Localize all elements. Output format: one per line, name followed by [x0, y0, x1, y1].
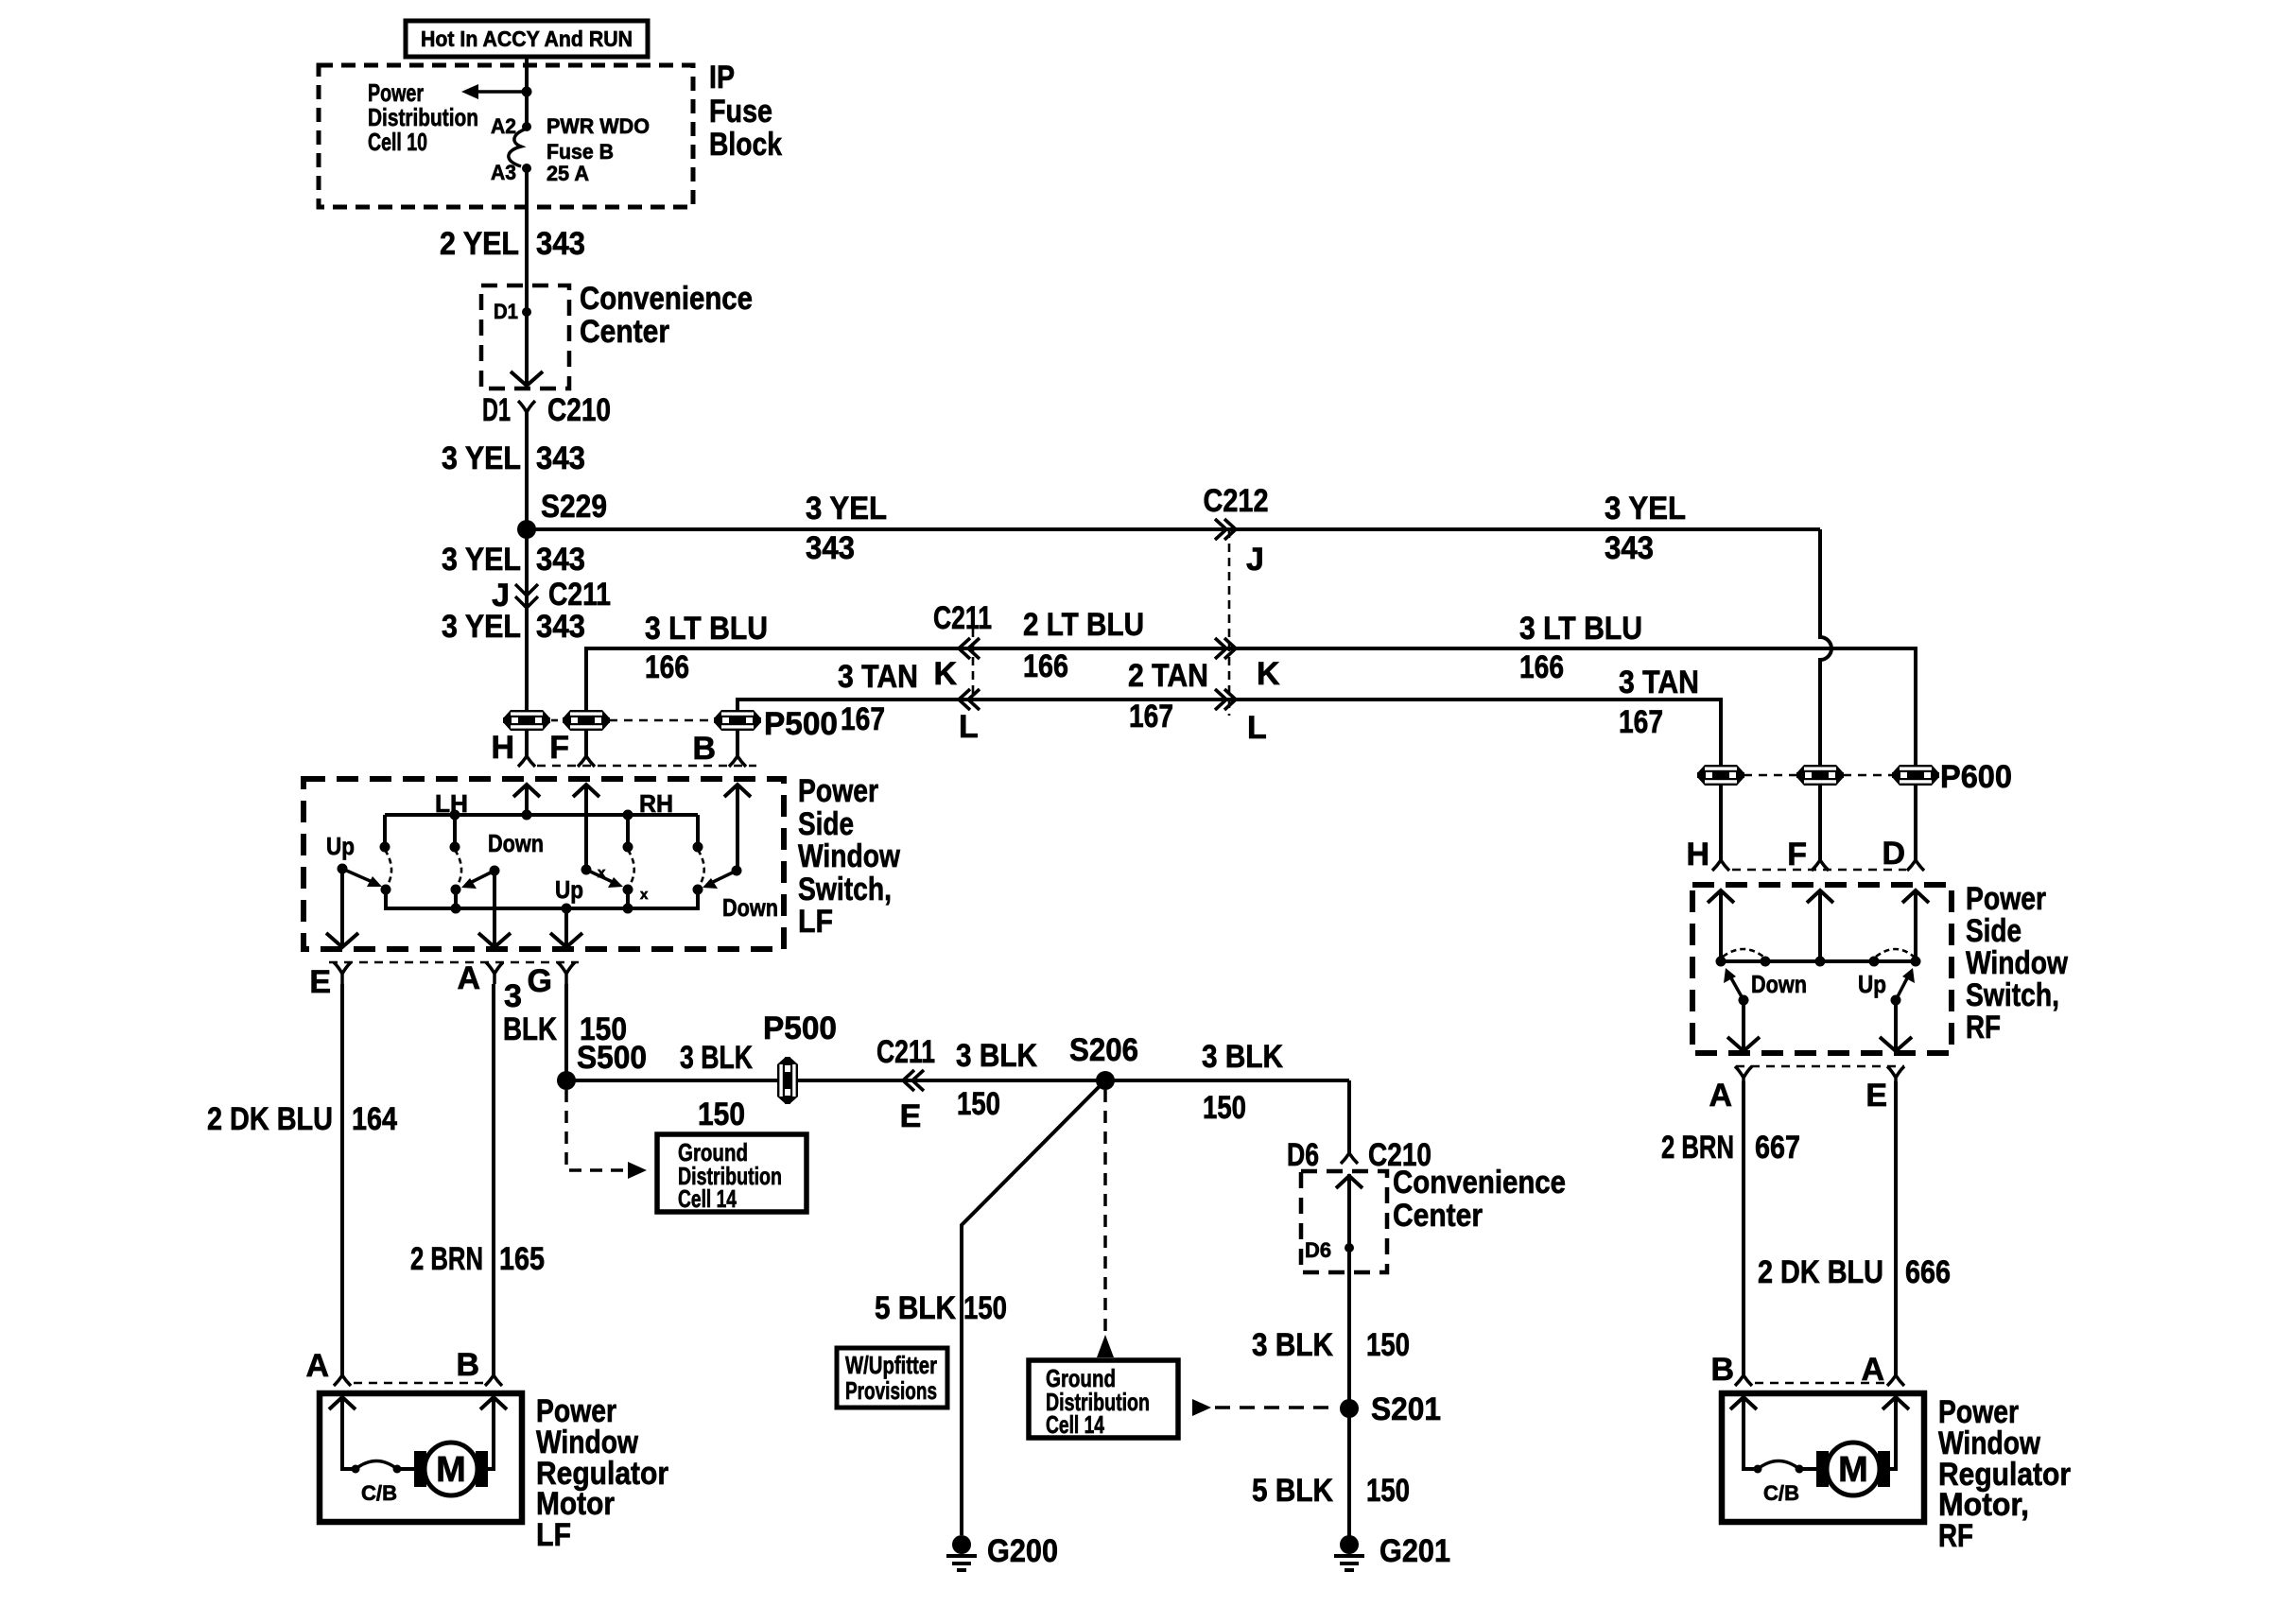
svg-text:Fuse: Fuse: [709, 94, 772, 130]
wire G output: [564, 908, 568, 947]
wire: feed into fuse block: [525, 57, 529, 127]
connector pins E A G below LF switch: [309, 960, 579, 1000]
svg-text:A: A: [1861, 1352, 1884, 1388]
label Convenience Center: [580, 281, 753, 350]
svg-text:167: 167: [841, 701, 885, 737]
svg-text:343: 343: [536, 441, 585, 476]
svg-text:A: A: [1709, 1078, 1732, 1114]
svg-text:C/B: C/B: [1763, 1481, 1799, 1505]
svg-text:E: E: [1865, 1078, 1887, 1114]
svg-text:3 LT BLU: 3 LT BLU: [1519, 611, 1642, 647]
label Power Side Window Switch, RF: [1966, 881, 2068, 1045]
svg-text:150: 150: [1366, 1473, 1410, 1509]
wiper B pole: [732, 866, 742, 876]
svg-text:Convenience: Convenience: [1393, 1165, 1566, 1201]
connector C211 E on BLK wire: [903, 1070, 924, 1091]
svg-text:Side: Side: [798, 806, 854, 842]
svg-text:C210: C210: [547, 392, 611, 428]
svg-text:150: 150: [1203, 1090, 1246, 1126]
svg-text:K: K: [933, 656, 957, 692]
junction dots on lower bus: [451, 904, 461, 914]
connector pins H F B of LF switch: [491, 730, 756, 767]
ground G201: [1334, 1535, 1364, 1570]
label 2 TAN 167: [1128, 658, 1208, 734]
label Power Side Window Switch, LF: [798, 773, 900, 940]
svg-text:E: E: [309, 964, 331, 1000]
svg-text:Switch,: Switch,: [1966, 977, 2059, 1013]
svg-text:Switch,: Switch,: [798, 872, 892, 907]
label 3 BLK 150 (C211-S206): [956, 1038, 1037, 1122]
svg-text:C211: C211: [933, 600, 992, 636]
svg-text:Down: Down: [722, 893, 778, 922]
svg-text:Center: Center: [1393, 1198, 1483, 1234]
Convenience Center dashed box (D1): [481, 285, 569, 389]
svg-text:Side: Side: [1966, 913, 2021, 949]
label 2 BRN 667: [1661, 1130, 1800, 1166]
wire F into switch: [573, 785, 599, 797]
wire D into RF switch: [1902, 890, 1929, 903]
grommet P500 F: [563, 710, 610, 731]
svg-text:3 YEL: 3 YEL: [1605, 491, 1686, 527]
wire E to motor: [340, 984, 344, 1375]
RF contact bus: [1721, 959, 1916, 963]
svg-text:Power: Power: [1966, 881, 2046, 917]
label 3 BLK 150 (D6-S201): [1252, 1327, 1410, 1363]
label 3 YEL 343 (right segment): [1605, 491, 1686, 566]
grommet P600 F: [1796, 765, 1844, 786]
svg-text:666: 666: [1905, 1254, 1951, 1290]
wire B into switch: [724, 785, 751, 797]
wire A to motor: [492, 984, 495, 1375]
connector C211 chevrons on LT BLU wire: [959, 638, 980, 659]
node: branch to Power Distribution: [522, 87, 532, 97]
svg-text:2 DK BLU: 2 DK BLU: [207, 1101, 333, 1137]
svg-text:166: 166: [1023, 648, 1068, 684]
svg-text:B: B: [1710, 1352, 1734, 1388]
svg-text:2 DK BLU: 2 DK BLU: [1758, 1254, 1883, 1290]
label 3 TAN 167 (left): [838, 659, 918, 737]
Convenience Center dashed box (D6): [1301, 1171, 1387, 1272]
label 3 LT BLU 166 (right): [1519, 611, 1642, 685]
dashed ref to S201: [1192, 1399, 1211, 1416]
svg-text:M: M: [436, 1450, 466, 1490]
svg-text:P600: P600: [1940, 759, 2012, 795]
svg-text:2 BRN: 2 BRN: [1661, 1130, 1734, 1166]
svg-text:165: 165: [499, 1241, 545, 1277]
svg-text:3 YEL: 3 YEL: [442, 609, 521, 645]
label Power Distribution Cell 10: [368, 78, 478, 156]
wiper RH x: [581, 865, 592, 875]
svg-text:167: 167: [1129, 699, 1173, 734]
dashed throw arcs RF: [1723, 949, 1763, 957]
svg-text:B: B: [456, 1347, 479, 1383]
connector C212 chevrons on YEL wire: [1215, 519, 1236, 540]
wire YEL down to P600 F (hop over LT BLU): [1820, 529, 1831, 860]
wire 3 TAN from LF switch B up and right: [737, 700, 1721, 860]
switch box RF: [1692, 885, 1952, 1053]
svg-text:L: L: [1247, 710, 1267, 746]
lower contact dots: [381, 885, 391, 895]
svg-text:3 BLK: 3 BLK: [1252, 1327, 1333, 1363]
wire E to motor RF: [1894, 1081, 1898, 1375]
label 2 DK BLU 164: [207, 1101, 397, 1137]
svg-text:C212: C212: [1204, 483, 1269, 519]
wiper A pole: [490, 866, 500, 876]
svg-text:D6: D6: [1305, 1238, 1331, 1262]
svg-text:C211: C211: [876, 1034, 935, 1070]
svg-text:S229: S229: [541, 489, 607, 525]
motor box LF: [320, 1393, 522, 1522]
svg-text:E: E: [900, 1098, 922, 1134]
svg-text:343: 343: [536, 542, 585, 578]
svg-text:C/B: C/B: [361, 1481, 397, 1505]
svg-text:Fuse B: Fuse B: [547, 140, 614, 164]
svg-text:W/Upfitter: W/Upfitter: [845, 1351, 937, 1379]
box "Hot In ACCY And RUN": [406, 21, 648, 57]
grommet P500 H: [503, 710, 550, 731]
svg-text:166: 166: [1519, 649, 1564, 685]
supply bus: [385, 813, 698, 817]
svg-text:A3: A3: [491, 161, 516, 184]
wiper A pole RF: [1739, 995, 1749, 1006]
grommet P600 D: [1892, 765, 1939, 786]
label 3 BLK 150 (S206-D6): [1202, 1039, 1283, 1126]
svg-text:3 YEL: 3 YEL: [442, 441, 521, 476]
connector C212 dashed line: [1228, 529, 1231, 716]
wire BLK S500 to D6: [566, 1079, 1349, 1082]
label 2 LT BLU 166: [1023, 607, 1144, 684]
connector pins A B of motor LF: [305, 1347, 502, 1386]
svg-text:F: F: [1787, 837, 1807, 872]
svg-text:3 LT BLU: 3 LT BLU: [645, 611, 768, 647]
connector C211 J (in-line on yellow wire): [492, 577, 611, 613]
svg-text:Cell 14: Cell 14: [1046, 1410, 1104, 1439]
label 3 YEL 343: [442, 441, 585, 476]
RF bus contact dots: [1716, 957, 1726, 967]
svg-text:LF: LF: [536, 1517, 571, 1553]
connector C211 dashed line: [972, 614, 975, 700]
svg-text:150: 150: [963, 1290, 1007, 1326]
svg-text:5 BLK: 5 BLK: [1252, 1473, 1333, 1509]
svg-text:2 YEL: 2 YEL: [440, 226, 519, 262]
svg-text:BLK: BLK: [503, 1011, 557, 1047]
svg-text:Hot In ACCY And RUN: Hot In ACCY And RUN: [421, 26, 633, 51]
wire H into RF switch: [1708, 890, 1734, 903]
box Ground Distribution Cell 14 (left): [657, 1134, 807, 1212]
svg-text:Window: Window: [798, 838, 900, 874]
box Ground Distribution Cell 14 (right): [1029, 1360, 1178, 1438]
label 3 BLK 150: [503, 978, 627, 1047]
svg-text:Window: Window: [1966, 945, 2068, 981]
svg-text:3 BLK: 3 BLK: [680, 1040, 753, 1076]
svg-text:A: A: [305, 1348, 329, 1384]
svg-text:343: 343: [806, 530, 855, 566]
IP Fuse Block dashed box: [319, 65, 693, 207]
splice S201: [1340, 1399, 1359, 1418]
svg-text:150: 150: [957, 1086, 1000, 1122]
svg-text:RF: RF: [1966, 1010, 2001, 1045]
label 3 LT BLU 166 (left): [645, 611, 768, 685]
svg-text:J: J: [1246, 542, 1264, 578]
svg-text:3 BLK: 3 BLK: [1202, 1039, 1283, 1075]
svg-text:D: D: [1882, 836, 1905, 872]
label Power Window Regulator Motor LF: [536, 1393, 668, 1553]
svg-text:D6: D6: [1287, 1137, 1319, 1173]
svg-text:667: 667: [1755, 1130, 1800, 1166]
svg-text:Block: Block: [709, 127, 782, 163]
svg-text:Up: Up: [555, 875, 583, 904]
grommet P500 B: [714, 710, 761, 731]
svg-text:Provisions: Provisions: [845, 1376, 937, 1405]
contact stubs upper: [383, 815, 387, 847]
wire 3 YEL 343 from S229 to right: [527, 527, 1820, 531]
svg-text:2 LT BLU: 2 LT BLU: [1023, 607, 1144, 643]
label 3 BLK 150 (S500-P500): [680, 1040, 753, 1132]
svg-text:3 BLK: 3 BLK: [956, 1038, 1037, 1074]
svg-text:P500: P500: [764, 706, 838, 742]
svg-text:PWR WDO: PWR WDO: [547, 114, 650, 138]
label 5 BLK 150 (G200): [875, 1290, 1007, 1326]
svg-text:Cell 14: Cell 14: [678, 1184, 737, 1213]
svg-text:343: 343: [1605, 530, 1654, 566]
connector pins B A of motor RF: [1710, 1352, 1904, 1388]
svg-text:Convenience: Convenience: [580, 281, 753, 317]
svg-text:Cell 10: Cell 10: [368, 128, 427, 156]
dashed throw arcs: [385, 850, 391, 887]
motor LF internals: [329, 1397, 507, 1505]
svg-text:RH: RH: [639, 789, 673, 818]
svg-text:Down: Down: [1751, 970, 1807, 998]
dashed ref to Ground Distribution: [566, 1090, 626, 1170]
svg-text:3 TAN: 3 TAN: [1619, 665, 1699, 700]
svg-text:343: 343: [536, 226, 585, 262]
wire arrow to Power Distribution Cell 10: [477, 90, 527, 94]
svg-text:S201: S201: [1371, 1391, 1441, 1427]
connector pins H F D of RF switch: [1686, 836, 1924, 872]
svg-text:Up: Up: [326, 832, 355, 860]
svg-text:F: F: [549, 730, 569, 766]
connector C211 chevrons on TAN wire: [959, 689, 980, 710]
junction dots on supply bus: [450, 810, 460, 821]
wire: fuse output down to window switch: [525, 168, 529, 386]
connector C210 D6: [1341, 1140, 1358, 1164]
label 3 YEL 343 (left segment): [806, 491, 887, 566]
svg-text:K: K: [1257, 656, 1280, 692]
grommet P500 (inline): [777, 1057, 798, 1104]
svg-text:D1: D1: [482, 392, 511, 428]
svg-text:G201: G201: [1379, 1533, 1450, 1569]
dashed link: [609, 719, 715, 722]
svg-text:LF: LF: [798, 904, 833, 940]
svg-text:Power: Power: [798, 773, 878, 809]
label 2 YEL 343: [440, 226, 585, 262]
svg-text:x: x: [640, 887, 649, 903]
svg-text:3 YEL: 3 YEL: [442, 542, 521, 578]
svg-text:IP: IP: [709, 60, 735, 95]
label 2 DK BLU 666: [1758, 1254, 1951, 1290]
svg-text:A: A: [457, 960, 480, 996]
svg-text:2 BRN: 2 BRN: [410, 1241, 483, 1277]
wire BLK down through D6 to G201: [1347, 1080, 1351, 1153]
lower bus: [386, 890, 698, 908]
svg-text:M: M: [1838, 1450, 1868, 1490]
svg-text:D1: D1: [494, 300, 518, 323]
label Power Window Regulator Motor, RF: [1938, 1394, 2071, 1554]
label 3 YEL 343: [442, 609, 585, 645]
svg-text:150: 150: [698, 1097, 745, 1132]
svg-text:25 A: 25 A: [547, 162, 589, 185]
svg-text:H: H: [1686, 837, 1709, 872]
svg-text:B: B: [692, 731, 716, 767]
wire H into switch: [513, 785, 540, 797]
wiper E pole RF: [1891, 995, 1901, 1006]
wiper E pole: [338, 864, 348, 874]
motor box RF: [1722, 1393, 1924, 1522]
connector pins A E below RF switch: [1709, 1066, 1904, 1114]
svg-text:166: 166: [645, 649, 689, 685]
svg-text:LH: LH: [435, 789, 468, 818]
svg-text:P500: P500: [763, 1011, 837, 1046]
svg-text:G: G: [528, 963, 552, 999]
svg-text:5 BLK: 5 BLK: [875, 1290, 956, 1326]
svg-text:H: H: [491, 730, 514, 766]
svg-text:G200: G200: [987, 1533, 1058, 1569]
svg-text:164: 164: [352, 1101, 397, 1137]
svg-text:3 YEL: 3 YEL: [806, 491, 887, 527]
label 3 YEL 343: [442, 542, 585, 578]
fuse PWR WDO Fuse B 25A: [491, 114, 650, 185]
svg-text:S206: S206: [1069, 1032, 1138, 1068]
wire BLK to G200: [962, 1080, 1105, 1535]
connector C210 D1: [518, 401, 535, 423]
label 3 TAN 167 (right): [1619, 665, 1699, 740]
connector C212 chevrons on TAN wire: [1215, 689, 1236, 710]
arrow out of convenience center: [511, 371, 543, 386]
grommet P600 H: [1697, 765, 1744, 786]
svg-text:Up: Up: [1858, 970, 1886, 998]
upper contact dots: [380, 842, 390, 853]
label Convenience Center: [1393, 1165, 1566, 1234]
switch box LF: [304, 779, 784, 949]
svg-text:150: 150: [1366, 1327, 1410, 1363]
svg-text:C211: C211: [548, 577, 611, 613]
svg-text:Center: Center: [580, 314, 669, 350]
label IP Fuse Block: [709, 60, 782, 163]
label 2 BRN 165: [410, 1241, 545, 1277]
label 5 BLK 150 (G201): [1252, 1473, 1410, 1509]
svg-text:167: 167: [1619, 704, 1663, 740]
wire 3 LT BLU from LF switch F up and right: [586, 648, 1916, 860]
dashed ref from S206 to Ground Distribution: [1103, 1090, 1107, 1335]
svg-text:3 TAN: 3 TAN: [838, 659, 918, 695]
svg-text:A2: A2: [491, 114, 516, 138]
svg-text:L: L: [959, 709, 979, 745]
svg-text:343: 343: [536, 609, 585, 645]
svg-text:x: x: [598, 865, 606, 881]
motor RF internals: [1730, 1397, 1909, 1505]
svg-text:Down: Down: [488, 829, 544, 857]
svg-text:3: 3: [504, 978, 522, 1014]
svg-text:S500: S500: [577, 1040, 647, 1076]
ground G200: [946, 1535, 977, 1570]
wire F into RF switch: [1807, 890, 1833, 903]
wire G to S500: [564, 984, 568, 1080]
connector C212 chevrons on LT BLU wire: [1215, 638, 1236, 659]
box W/Upfitter Provisions: [837, 1348, 947, 1408]
svg-text:RF: RF: [1938, 1518, 1973, 1554]
wire A to motor RF: [1742, 1081, 1745, 1375]
svg-text:2 TAN: 2 TAN: [1128, 658, 1208, 694]
